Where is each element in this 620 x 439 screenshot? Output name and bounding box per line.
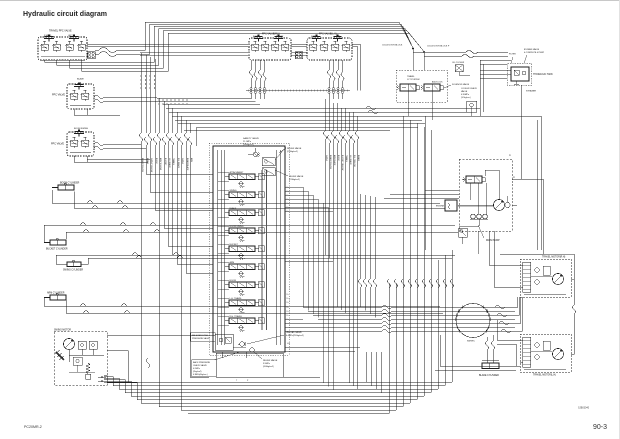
svg-text:BOOM: BOOM	[230, 280, 237, 282]
swivel pass-through right	[495, 306, 505, 309]
svg-text:ATTACHMENT: ATTACHMENT	[230, 171, 245, 174]
main pump circle	[494, 200, 505, 211]
swing motor outlet stair	[104, 376, 107, 383]
boom cylinder lines	[52, 190, 440, 203]
top line bundle	[117, 22, 399, 50]
svg-text:BUCKET: BUCKET	[230, 244, 239, 246]
svg-text:BOOM: BOOM	[155, 158, 157, 164]
motor LH feed lines	[497, 339, 520, 341]
svg-text:BLADE: BLADE	[357, 155, 360, 162]
pilot supply runs	[157, 97, 251, 99]
pump drive shaft	[457, 205, 494, 207]
svg-text:ARM YELLOW: ARM YELLOW	[159, 158, 162, 170]
return runs to tank	[166, 107, 480, 109]
pilot bundle right	[324, 99, 326, 131]
boom swing PPC hoses	[94, 143, 104, 146]
tank drop lines	[479, 60, 481, 116]
travel junction box	[396, 70, 447, 102]
svg-text:TRAVEL: TRAVEL	[172, 158, 175, 165]
relief valve 3.9MPa glyph	[250, 348, 254, 352]
travel PPC valve	[38, 37, 87, 60]
collector to tank lines	[412, 49, 414, 53]
svg-text:PRESSURE VALVE: PRESSURE VALVE	[192, 337, 210, 340]
swivel joint	[456, 304, 490, 338]
svg-text:BUCKET: BUCKET	[164, 158, 166, 166]
svg-text:BOOM SWING: BOOM SWING	[74, 128, 88, 130]
svg-text:REL/EF VALVE: REL/EF VALVE	[263, 359, 278, 362]
svg-text:Pa: Pa	[287, 195, 289, 197]
collector drop lines	[412, 52, 414, 70]
safety valve glyph	[253, 152, 257, 156]
bucket cylinder	[50, 240, 66, 245]
svg-text:Pa: Pa	[287, 199, 289, 201]
svg-text:SW/VEL: SW/VEL	[467, 341, 476, 343]
bank relief valve boxes	[262, 158, 275, 166]
svg-text:Pa: Pa	[287, 207, 289, 209]
boom cylinder	[58, 185, 74, 190]
svg-text:P2: P2	[513, 177, 515, 179]
axle lock solenoid valve	[424, 84, 440, 91]
svg-text:BLADE: BLADE	[230, 207, 237, 210]
swing motor relief spring	[86, 363, 90, 374]
svg-text:BY-PASS VALVE: BY-PASS VALVE	[524, 48, 540, 51]
svg-text:PC20MR-2: PC20MR-2	[24, 425, 42, 429]
boom swing PPC drains	[73, 156, 75, 162]
svg-text:SJB03040: SJB03040	[578, 407, 590, 410]
unload valve	[240, 342, 244, 346]
travel motor RH	[520, 259, 571, 297]
svg-text:Hydraulic circuit diagram: Hydraulic circuit diagram	[23, 11, 107, 18]
svg-text:Pa: Pa	[287, 187, 289, 189]
svg-text:(216kg/cm²): (216kg/cm²)	[289, 178, 300, 181]
svg-text:BLACK YELLOW: BLACK YELLOW	[141, 158, 144, 172]
svg-text:ARM BLACK: ARM BLACK	[333, 155, 336, 166]
svg-text:0.4MPa(255kg/cm²): 0.4MPa(255kg/cm²)	[286, 334, 304, 337]
svg-text:ENG/NE: ENG/NE	[436, 206, 445, 208]
svg-text:SWING: SWING	[181, 158, 183, 165]
svg-text:CHECK VALVE: CHECK VALVE	[193, 364, 207, 367]
swing motor check valve	[73, 357, 82, 365]
svg-text:ARM: ARM	[190, 158, 193, 162]
travel PPC check block	[88, 52, 96, 59]
tank outlet down	[520, 85, 522, 179]
svg-text:0.35MPa: 0.35MPa	[461, 94, 470, 96]
junction dot grid upper	[140, 75, 141, 76]
svg-text:SWING CYLINDER: SWING CYLINDER	[63, 270, 83, 272]
travel PPC outlet hoses	[99, 48, 117, 53]
svg-text:(330kg/cm²): (330kg/cm²)	[243, 143, 254, 146]
PPC LH hoses down	[328, 60, 330, 70]
svg-text:JCT SYSTEM: JCT SYSTEM	[407, 79, 420, 81]
cooler check valve	[467, 101, 477, 112]
pump outlet lines	[425, 189, 459, 191]
PPC RH hoses down	[250, 60, 252, 70]
blade cylinder	[482, 363, 499, 369]
P line riser	[196, 128, 198, 147]
svg-text:TRAVEL: TRAVEL	[407, 75, 416, 78]
svg-text:BLADE YELLOW: BLADE YELLOW	[329, 155, 332, 169]
svg-text:21.1MPa: 21.1MPa	[243, 141, 252, 143]
swing motor valves	[78, 341, 86, 349]
svg-text:SWING: SWING	[230, 190, 237, 192]
svg-text:(3.5kg/cm²): (3.5kg/cm²)	[461, 96, 471, 99]
page edge shading	[0, 0, 620, 2]
body loop line	[425, 116, 541, 250]
blade PPC drains	[73, 109, 75, 115]
svg-text:(2kg/cm²): (2kg/cm²)	[193, 370, 202, 373]
svg-text:TRAVEL MOTOR(R.H): TRAVEL MOTOR(R.H)	[542, 256, 566, 259]
PPC valve blade	[67, 84, 94, 109]
swing motor	[54, 331, 107, 385]
tank inlet lines	[480, 59, 511, 61]
bottom line bundle	[107, 381, 452, 383]
svg-text:Pa: Pa	[287, 211, 289, 213]
svg-text:P1: P1	[509, 155, 511, 157]
travel motor LH	[520, 334, 571, 372]
svg-text:SAFETY VALVE: SAFETY VALVE	[243, 137, 259, 140]
svg-text:Pa: Pa	[287, 191, 289, 193]
svg-text:COLLECTOR BLOCK: COLLECTOR BLOCK	[382, 45, 403, 47]
PPC valve boom swing	[67, 132, 94, 156]
svg-text:O/L COOLER: O/L COOLER	[452, 62, 465, 64]
control valve outer box	[213, 146, 285, 352]
PPC valve RH	[249, 38, 291, 60]
swivel feed bundle	[303, 306, 382, 308]
svg-text:BOOM CYLINDER: BOOM CYLINDER	[60, 183, 80, 185]
svg-text:REL/EF VALVE: REL/EF VALVE	[289, 175, 304, 178]
svg-text:3.9MPa: 3.9MPa	[263, 363, 271, 365]
svg-text:Pa: Pa	[287, 311, 289, 313]
svg-text:Pa: Pa	[287, 298, 289, 300]
svg-text:HYDRAULIC TANK: HYDRAULIC TANK	[533, 73, 553, 76]
supply line travel to RH PPC	[87, 43, 248, 45]
svg-text:TRAVEL: TRAVEL	[345, 155, 348, 162]
self reducing pressure valve	[215, 334, 233, 350]
svg-text:BACK PRESSURE: BACK PRESSURE	[193, 361, 211, 364]
svg-text:TRAVEL MOTOR(L.H): TRAVEL MOTOR(L.H)	[533, 374, 556, 377]
svg-text:L.H. BLACK: L.H. BLACK	[168, 158, 171, 168]
svg-text:BUCKET CYLINDER: BUCKET CYLINDER	[46, 249, 68, 251]
svg-text:REL/EF VALVE: REL/EF VALVE	[287, 147, 302, 150]
PPC valve LH	[307, 38, 352, 60]
svg-text:BOOM: BOOM	[337, 155, 339, 161]
main pump box	[459, 159, 512, 231]
svg-text:STRAINER: STRAINER	[526, 90, 537, 93]
bank right lower ports	[285, 318, 303, 320]
svg-text:(210kg/cm²): (210kg/cm²)	[287, 150, 298, 153]
solenoid valve label pointer	[444, 85, 451, 88]
hydraulic tank	[508, 64, 532, 86]
blade PPC hoses	[94, 96, 104, 99]
svg-text:SOLENOID VALVE: SOLENOID VALVE	[452, 83, 470, 86]
pilot gear pump	[505, 202, 510, 207]
svg-text:BLADE: BLADE	[77, 78, 84, 81]
junction dot grid lower	[158, 99, 159, 100]
control valve feed lines	[217, 150, 219, 345]
travel PPC drain ports	[44, 60, 46, 62]
arm cylinder	[50, 295, 66, 300]
svg-text:R.H. BLACK: R.H. BLACK	[177, 158, 180, 169]
engine box	[445, 200, 457, 211]
svg-text:(200kg/cm²): (200kg/cm²)	[263, 365, 274, 368]
svg-text:COLLECTOR BLOCK P: COLLECTOR BLOCK P	[427, 46, 450, 48]
pilot relief box	[459, 228, 468, 237]
swing cylinder lines	[56, 255, 455, 264]
right long vertical	[573, 254, 575, 305]
svg-text:BLADE CYL/NDER: BLADE CYL/NDER	[479, 374, 499, 377]
bank right port stubs	[285, 187, 303, 307]
svg-text:90-3: 90-3	[593, 424, 607, 431]
svg-text:SWING: SWING	[325, 155, 327, 162]
travel speed solenoid valve	[400, 84, 416, 91]
svg-text:TRAVEL PPC VALVE: TRAVEL PPC VALVE	[49, 30, 72, 33]
svg-text:AXLE LOCK: AXLE LOCK	[432, 81, 443, 84]
svg-text:L.H. TRAVEL: L.H. TRAVEL	[230, 297, 243, 300]
svg-text:Pa: Pa	[287, 203, 289, 205]
blade cylinder hoses	[486, 337, 488, 341]
svg-text:R.H. YELLOW: R.H. YELLOW	[353, 155, 355, 167]
svg-text:Pa: Pa	[287, 307, 289, 309]
swing motor ports	[98, 376, 106, 378]
svg-text:BLADE BLACK: BLADE BLACK	[186, 158, 189, 171]
PPC check block center	[295, 52, 303, 59]
svg-text:& COMPLETE & PUMP: & COMPLETE & PUMP	[524, 52, 545, 54]
svg-text:0.2MPa: 0.2MPa	[193, 368, 201, 370]
svg-text:BOOM SWING: BOOM SWING	[230, 226, 244, 228]
svg-text:VALVE: VALVE	[461, 90, 468, 93]
bank lower right runs	[285, 346, 360, 348]
svg-text:PPC VALVE: PPC VALVE	[52, 94, 65, 97]
svg-text:SWING YELLOW: SWING YELLOW	[150, 158, 152, 172]
travel motor RH bottom line	[524, 293, 566, 295]
pump servo valve	[466, 176, 482, 183]
svg-text:BLADE: BLADE	[146, 158, 149, 165]
svg-text:PPC VALVE: PPC VALVE	[51, 143, 64, 146]
PPC hose coupling row	[246, 90, 350, 92]
arm cylinder lines	[44, 298, 440, 307]
svg-text:Pa: Pa	[287, 319, 289, 321]
svg-text:MAIN PUMP: MAIN PUMP	[486, 239, 500, 242]
bank lower sub box	[216, 353, 283, 377]
swing motor feed lines	[107, 335, 215, 337]
svg-text:ARM: ARM	[230, 261, 235, 264]
svg-text:Pa: Pa	[287, 294, 289, 296]
swing motor brake arrow	[56, 352, 64, 360]
bucket cylinder lines	[44, 225, 455, 243]
svg-text:L.H. BLACK: L.H. BLACK	[349, 155, 352, 165]
swing cylinder	[67, 262, 81, 267]
collector block junctions	[399, 22, 413, 48]
svg-text:R.H. TRAVEL: R.H. TRAVEL	[230, 315, 243, 318]
svg-text:UNLOAD VALVE: UNLOAD VALVE	[286, 331, 302, 334]
svg-text:F/LTER: F/LTER	[509, 54, 516, 56]
bank bottom ports	[221, 352, 223, 358]
oil cooler	[455, 65, 463, 72]
gear pumps	[471, 214, 476, 219]
bank bottom drops	[365, 352, 367, 382]
svg-text:COOLER CHECK: COOLER CHECK	[461, 88, 478, 90]
travel motor LH bottom line	[524, 368, 566, 370]
svg-text:Pa: Pa	[287, 302, 289, 304]
pump to travel motor lines	[489, 231, 520, 265]
svg-text:Pa: Pa	[287, 315, 289, 317]
svg-text:0.3MPa(3kg/cm²): 0.3MPa(3kg/cm²)	[193, 373, 208, 376]
center drop bundle	[359, 194, 361, 279]
svg-text:BUCKET YELLOW: BUCKET YELLOW	[341, 155, 343, 171]
pilot line bundle left	[140, 53, 142, 133]
self reducing pressure valve label	[191, 333, 216, 342]
back pressure valve label	[192, 360, 217, 377]
